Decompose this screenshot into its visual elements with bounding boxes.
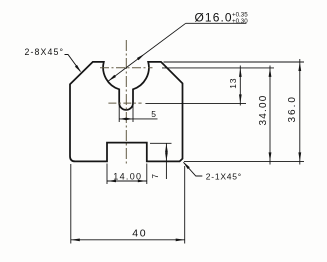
dimension 7 arrows	[165, 143, 168, 152]
dimension 34.00 arrows	[269, 68, 272, 77]
dimension 5 extension right	[132, 105, 134, 122]
label 2-1X45 leader arrow	[183, 162, 190, 170]
dimension 40 extension right	[184, 166, 186, 244]
dimension 34.00 line	[269, 66, 271, 165]
dimension 14.00 extension right	[146, 164, 148, 185]
svg-text:7: 7	[151, 174, 160, 179]
svg-text:2-1X45°: 2-1X45°	[206, 172, 242, 182]
extension line top edge (36.0)	[164, 61, 305, 63]
svg-text:+0.30: +0.30	[232, 18, 248, 25]
dimension 14.00 arrows	[107, 180, 116, 183]
svg-text:34.00: 34.00	[258, 94, 269, 125]
dimension 7 line	[165, 143, 167, 179]
label 2-1X45 leader	[184, 162, 203, 176]
part outline	[70, 62, 183, 161]
svg-text:13: 13	[228, 78, 238, 89]
leader shoulder	[186, 22, 247, 24]
svg-text:40: 40	[132, 227, 147, 239]
extension line center plane (13 / 34.00)	[162, 67, 274, 69]
svg-text:14.00: 14.00	[113, 171, 142, 181]
dimension 7 extension top	[150, 142, 172, 144]
dimension 14.00 extension left	[106, 164, 108, 185]
extension line bottom edge (34.00 / 36.0)	[184, 160, 304, 162]
dimension 40 arrows	[71, 239, 80, 242]
svg-text:5: 5	[151, 109, 156, 119]
svg-text:Ø16.0: Ø16.0	[195, 10, 233, 24]
centerline horizontal circle	[100, 67, 153, 69]
svg-text:2-8X45°: 2-8X45°	[25, 47, 65, 57]
svg-text:36.0: 36.0	[287, 95, 298, 122]
dimension 40 extension left	[70, 164, 72, 244]
dimension 5 arrows	[119, 118, 127, 121]
extension line slot bottom (13)	[145, 102, 246, 104]
dimension 36.0 line	[299, 59, 301, 165]
dimension 5 extension left	[118, 105, 120, 122]
dimension 36.0 arrows	[298, 62, 301, 71]
leader arrow lower-left	[108, 75, 116, 82]
dimension 13 line	[239, 66, 241, 106]
dimension 40 line	[71, 239, 185, 241]
dimension 5 line	[119, 118, 157, 120]
centerline horizontal slot cap	[108, 102, 141, 104]
dimension 13 arrows	[239, 68, 242, 77]
label 2-8X45 leader arrow	[75, 65, 82, 73]
leader arrow upper-right	[137, 54, 145, 61]
label 2-8X45 leader	[65, 55, 81, 72]
centerline vertical	[125, 40, 127, 164]
leader diameter line through circle	[108, 23, 186, 81]
dimension 14.00 line	[107, 180, 147, 182]
